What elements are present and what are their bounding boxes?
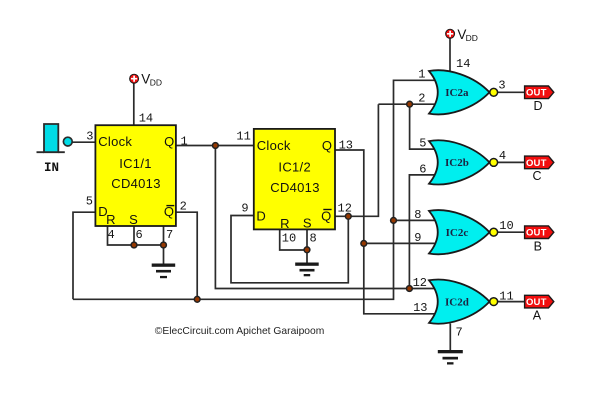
wire tap to IC2c input 8 — [394, 219, 437, 221]
svg-text:Q: Q — [321, 209, 331, 224]
NOR gate IC2d — [429, 280, 490, 324]
wire VDD to IC1/1 pin 14 — [133, 83, 135, 126]
svg-text:IC2a: IC2a — [445, 87, 469, 99]
wire VDD to IC2a pin 14 — [449, 38, 451, 72]
svg-text:12: 12 — [338, 202, 352, 216]
svg-text:9: 9 — [414, 231, 421, 245]
svg-text:7: 7 — [166, 228, 173, 242]
wire bottom rail Q-bar1 net up to IC2a input 1 — [73, 80, 436, 299]
VDD symbol at IC2 pin 14 — [446, 27, 478, 43]
svg-text:10: 10 — [282, 231, 296, 245]
svg-text:11: 11 — [236, 129, 250, 143]
svg-text:A: A — [533, 308, 542, 322]
NOR gate IC2a — [429, 70, 490, 114]
svg-text:4: 4 — [108, 228, 115, 242]
svg-text:10: 10 — [499, 219, 513, 233]
svg-text:8: 8 — [310, 231, 317, 245]
junction node Q-bar2 at pin 12 — [345, 213, 351, 219]
svg-text:9: 9 — [241, 201, 248, 215]
wire to IC2a input 2 — [378, 103, 436, 105]
svg-text:3: 3 — [498, 79, 505, 93]
wire IC2b output 4 to OUT C — [498, 161, 525, 163]
wire Q2 (IC1/2 pin 13) down to IC2d input 13 — [335, 150, 436, 314]
svg-text:14: 14 — [456, 57, 470, 71]
svg-text:©ElecCircuit.com Apichet Garai: ©ElecCircuit.com Apichet Garaipoom — [155, 326, 325, 337]
OUT flag D — [525, 86, 554, 113]
svg-text:Q: Q — [322, 138, 332, 153]
svg-text:IC1/1: IC1/1 — [119, 156, 152, 171]
junction node IC1/1 pin 6 — [131, 242, 137, 248]
ground symbol under IC1/1 pin 7 — [152, 264, 176, 279]
node IN terminal circle — [63, 137, 72, 146]
svg-text:Clock: Clock — [257, 138, 291, 153]
text inside IC1/1 — [98, 134, 174, 227]
output bubble IC2c pin 10 — [490, 228, 498, 236]
svg-text:OUT: OUT — [526, 228, 547, 239]
OUT flag A — [525, 295, 554, 322]
wire IC1/1 pins 4,6,7 to ground rail — [108, 226, 164, 264]
junction node at IC2d input 12 — [407, 286, 413, 292]
svg-text:CD4013: CD4013 — [270, 180, 320, 195]
junction node at IC2c input 8 tap — [391, 218, 397, 224]
svg-text:5: 5 — [86, 195, 93, 209]
svg-text:2: 2 — [418, 92, 425, 106]
svg-text:12: 12 — [413, 276, 427, 290]
svg-text:Q: Q — [164, 134, 174, 149]
wire IC1/1 D pin 5 feedback loop — [73, 212, 95, 299]
wire node to IC2d input 12 — [409, 288, 436, 290]
OUT flag B — [525, 226, 554, 254]
junction node IC1/1 pin 7 ground — [161, 242, 167, 248]
svg-text:IN: IN — [44, 161, 59, 175]
flip-flop IC1/1 (CD4013) body — [95, 125, 175, 226]
wire net Q1 down and right to node at IC2d input 12 — [215, 146, 409, 289]
svg-text:S: S — [303, 216, 312, 231]
wire IC2d output 11 to OUT A — [498, 301, 525, 303]
svg-text:6: 6 — [136, 228, 143, 242]
wire IN terminal to IC1/1 clock pin 3 — [72, 141, 95, 143]
svg-text:D: D — [533, 99, 542, 113]
svg-text:Q: Q — [164, 204, 174, 219]
svg-text:DD: DD — [150, 78, 162, 88]
wire Q-bar1 (IC1/1 pin 2) down to bottom rail — [176, 212, 197, 299]
svg-text:IC2b: IC2b — [445, 157, 469, 169]
svg-text:3: 3 — [86, 130, 93, 144]
svg-text:2: 2 — [180, 200, 187, 214]
junction node at IC2a input 2 — [407, 101, 413, 107]
text inside IC1/2 — [256, 138, 332, 231]
svg-text:R: R — [106, 212, 116, 227]
junction node Q-bar1 bottom rail — [194, 296, 200, 302]
svg-text:11: 11 — [499, 289, 513, 303]
svg-text:B: B — [534, 239, 542, 253]
svg-text:OUT: OUT — [526, 297, 547, 308]
wire Q1 (IC1/1 pin 1) to IC1/2 clock pin 11 — [176, 145, 254, 147]
svg-text:13: 13 — [339, 138, 353, 152]
wire IC2c output 10 to OUT B — [498, 231, 525, 233]
NOR gate IC2b — [429, 140, 490, 184]
ground symbol under IC2d pin 7 — [438, 350, 463, 365]
OUT flag C — [525, 156, 554, 183]
svg-text:1: 1 — [181, 134, 188, 148]
svg-text:4: 4 — [499, 149, 506, 163]
svg-text:13: 13 — [413, 301, 427, 315]
svg-text:IC2c: IC2c — [446, 227, 469, 239]
wire IC2d pin 7 to ground — [449, 324, 451, 351]
junction node Q2 at IC2c input 9 tap — [361, 241, 367, 247]
svg-text:CD4013: CD4013 — [111, 176, 161, 191]
svg-text:C: C — [532, 169, 541, 183]
svg-text:1: 1 — [418, 68, 425, 82]
svg-text:IC2d: IC2d — [445, 296, 469, 308]
NOR gate IC2c — [429, 210, 490, 254]
wire tap down to IC2b input 5 — [410, 104, 436, 149]
output bubble IC2a pin 3 — [490, 88, 498, 96]
wire Q-bar2 feedback loop to IC1/2 D pin 9 — [231, 216, 348, 283]
output bubble IC2d pin 11 — [490, 298, 498, 306]
junction node IC1/2 pin 8 ground — [304, 247, 310, 253]
VDD symbol at IC1 pin 14 — [130, 72, 162, 88]
svg-text:OUT: OUT — [526, 88, 547, 99]
svg-text:Clock: Clock — [98, 134, 132, 149]
wire IC1/2 pins 10,8 to ground — [280, 229, 307, 262]
svg-text:DD: DD — [466, 33, 478, 43]
svg-text:D: D — [256, 209, 266, 224]
wire IC2a output 3 to OUT D — [498, 91, 525, 93]
svg-text:8: 8 — [414, 208, 421, 222]
junction node Q1 at pin 1 — [213, 143, 219, 149]
svg-text:6: 6 — [419, 162, 426, 176]
svg-text:S: S — [129, 212, 138, 227]
svg-text:OUT: OUT — [526, 158, 547, 169]
svg-text:14: 14 — [139, 112, 153, 126]
output bubble IC2b pin 4 — [490, 159, 498, 167]
input pulse source symbol — [37, 124, 65, 152]
svg-text:5: 5 — [419, 136, 426, 150]
svg-text:7: 7 — [456, 326, 463, 340]
svg-text:IC1/2: IC1/2 — [278, 160, 311, 175]
wire tap to IC2c input 9 — [364, 242, 436, 244]
ground symbol under IC1/2 pin 8 — [295, 263, 319, 277]
wire Q-bar2 (IC1/2 pin 12) right and up — [335, 104, 378, 216]
flip-flop IC1/2 (CD4013) body — [254, 129, 335, 230]
wire node up to IC2b input 6 — [409, 175, 436, 289]
svg-text:R: R — [280, 216, 290, 231]
